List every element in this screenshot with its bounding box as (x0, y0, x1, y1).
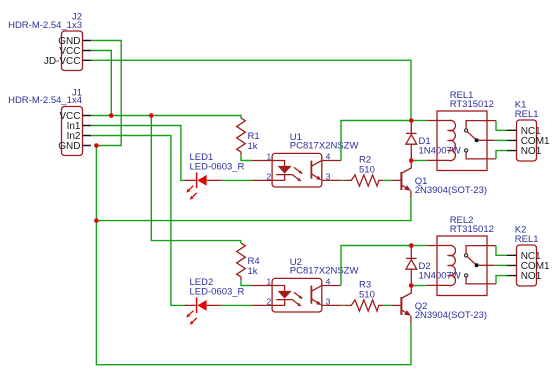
svg-text:NO1: NO1 (521, 271, 542, 282)
transistor Q1 2N3904 (392, 161, 487, 199)
svg-text:510: 510 (359, 289, 375, 300)
svg-text:4: 4 (326, 151, 331, 161)
svg-text:RT315012: RT315012 (450, 224, 494, 235)
junction GND at J1 (94, 143, 99, 148)
junction VCC rail / J2 VCC (109, 113, 114, 118)
wire node to relay coil bottom (411, 285, 427, 287)
junction node relay1 plus (409, 118, 414, 123)
wire LED1 to opto (221, 179, 252, 181)
connector J1 HDR-M-2.54_1x4 (8, 87, 91, 155)
svg-text:GND: GND (58, 141, 80, 152)
svg-text:2N3904(SOT-23): 2N3904(SOT-23) (415, 310, 487, 321)
resistor R3 510 (341, 280, 392, 312)
opto-coupler U2 PC817X2NSZW (252, 257, 358, 312)
junction node Q2 collector (409, 283, 414, 288)
relay REL1 RT315012 (427, 90, 496, 170)
resistor R2 510 (341, 155, 392, 187)
wire relay NO to K (496, 151, 507, 159)
svg-text:1k: 1k (248, 266, 258, 277)
LED LED2 LED-0603_R (185, 277, 245, 325)
wire GND branch to Q1 emitter (96, 198, 411, 221)
svg-text:PC817X2NSZW: PC817X2NSZW (290, 141, 359, 152)
wire JD-VCC rail (91, 60, 411, 120)
junction GND branch (94, 218, 99, 223)
wire GND bus (96, 146, 411, 365)
svg-text:HDR-M-2.54_1x4: HDR-M-2.54_1x4 (8, 95, 82, 106)
connector K2 REL1 (507, 225, 550, 286)
relay REL2 RT315012 (427, 215, 496, 295)
LED LED1 LED-0603_R (185, 152, 245, 200)
svg-text:NO1: NO1 (521, 146, 542, 157)
resistor R1 1k (237, 118, 260, 161)
svg-text:3: 3 (326, 296, 331, 306)
wire relay NC to K (496, 246, 507, 256)
svg-text:3: 3 (326, 171, 331, 181)
diode D2 1N4007W (406, 246, 461, 286)
wire relay COM to K (495, 264, 508, 266)
svg-text:2: 2 (267, 171, 272, 181)
svg-text:510: 510 (359, 164, 375, 175)
wire relay NC to K (496, 121, 507, 131)
svg-text:LED-0603_R: LED-0603_R (190, 161, 245, 172)
wire In2 to LED2 (91, 136, 185, 306)
svg-text:HDR-M-2.54_1x3: HDR-M-2.54_1x3 (8, 20, 82, 31)
transistor Q2 2N3904 (392, 286, 487, 324)
wire node to relay coil top (411, 245, 427, 247)
connector J2 HDR-M-2.54_1x3 (8, 12, 91, 71)
wire node to relay coil bottom (411, 160, 427, 162)
svg-text:PC817X2NSZW: PC817X2NSZW (290, 266, 359, 277)
wire U1 pin4 riser (341, 121, 411, 161)
opto-coupler U1 PC817X2NSZW (252, 132, 358, 187)
resistor R4 1k (237, 243, 260, 286)
svg-text:RT315012: RT315012 (450, 99, 494, 110)
wire J2 GND to J1 GND (91, 41, 121, 146)
junction node relay2 plus (409, 243, 414, 248)
svg-text:LED-0603_R: LED-0603_R (190, 286, 245, 297)
svg-text:1k: 1k (248, 141, 258, 152)
wire relay COM to K (495, 139, 508, 141)
wire J2 VCC down to VCC rail (91, 51, 111, 116)
svg-text:1: 1 (267, 276, 272, 286)
connector K1 REL1 (507, 100, 550, 161)
wire node to relay coil top (411, 120, 427, 122)
svg-text:JD-VCC: JD-VCC (44, 56, 81, 67)
svg-text:1: 1 (267, 151, 272, 161)
wire relay NO to K (496, 276, 507, 284)
junction VCC rail / R4 branch (149, 113, 154, 118)
wire VCC rail to R1 (91, 116, 241, 119)
svg-text:2: 2 (267, 296, 272, 306)
junction node Q1 collector (409, 158, 414, 163)
wire VCC branch to R4 (151, 116, 240, 244)
svg-text:REL1: REL1 (515, 234, 539, 245)
svg-text:REL1: REL1 (515, 109, 539, 120)
wire U2 pin4 riser (341, 246, 411, 286)
diode D1 1N4007W (406, 121, 461, 161)
svg-text:4: 4 (326, 276, 331, 286)
wire In1 to LED1 (91, 126, 185, 181)
svg-text:2N3904(SOT-23): 2N3904(SOT-23) (415, 185, 487, 196)
wire LED2 to opto (221, 304, 252, 306)
